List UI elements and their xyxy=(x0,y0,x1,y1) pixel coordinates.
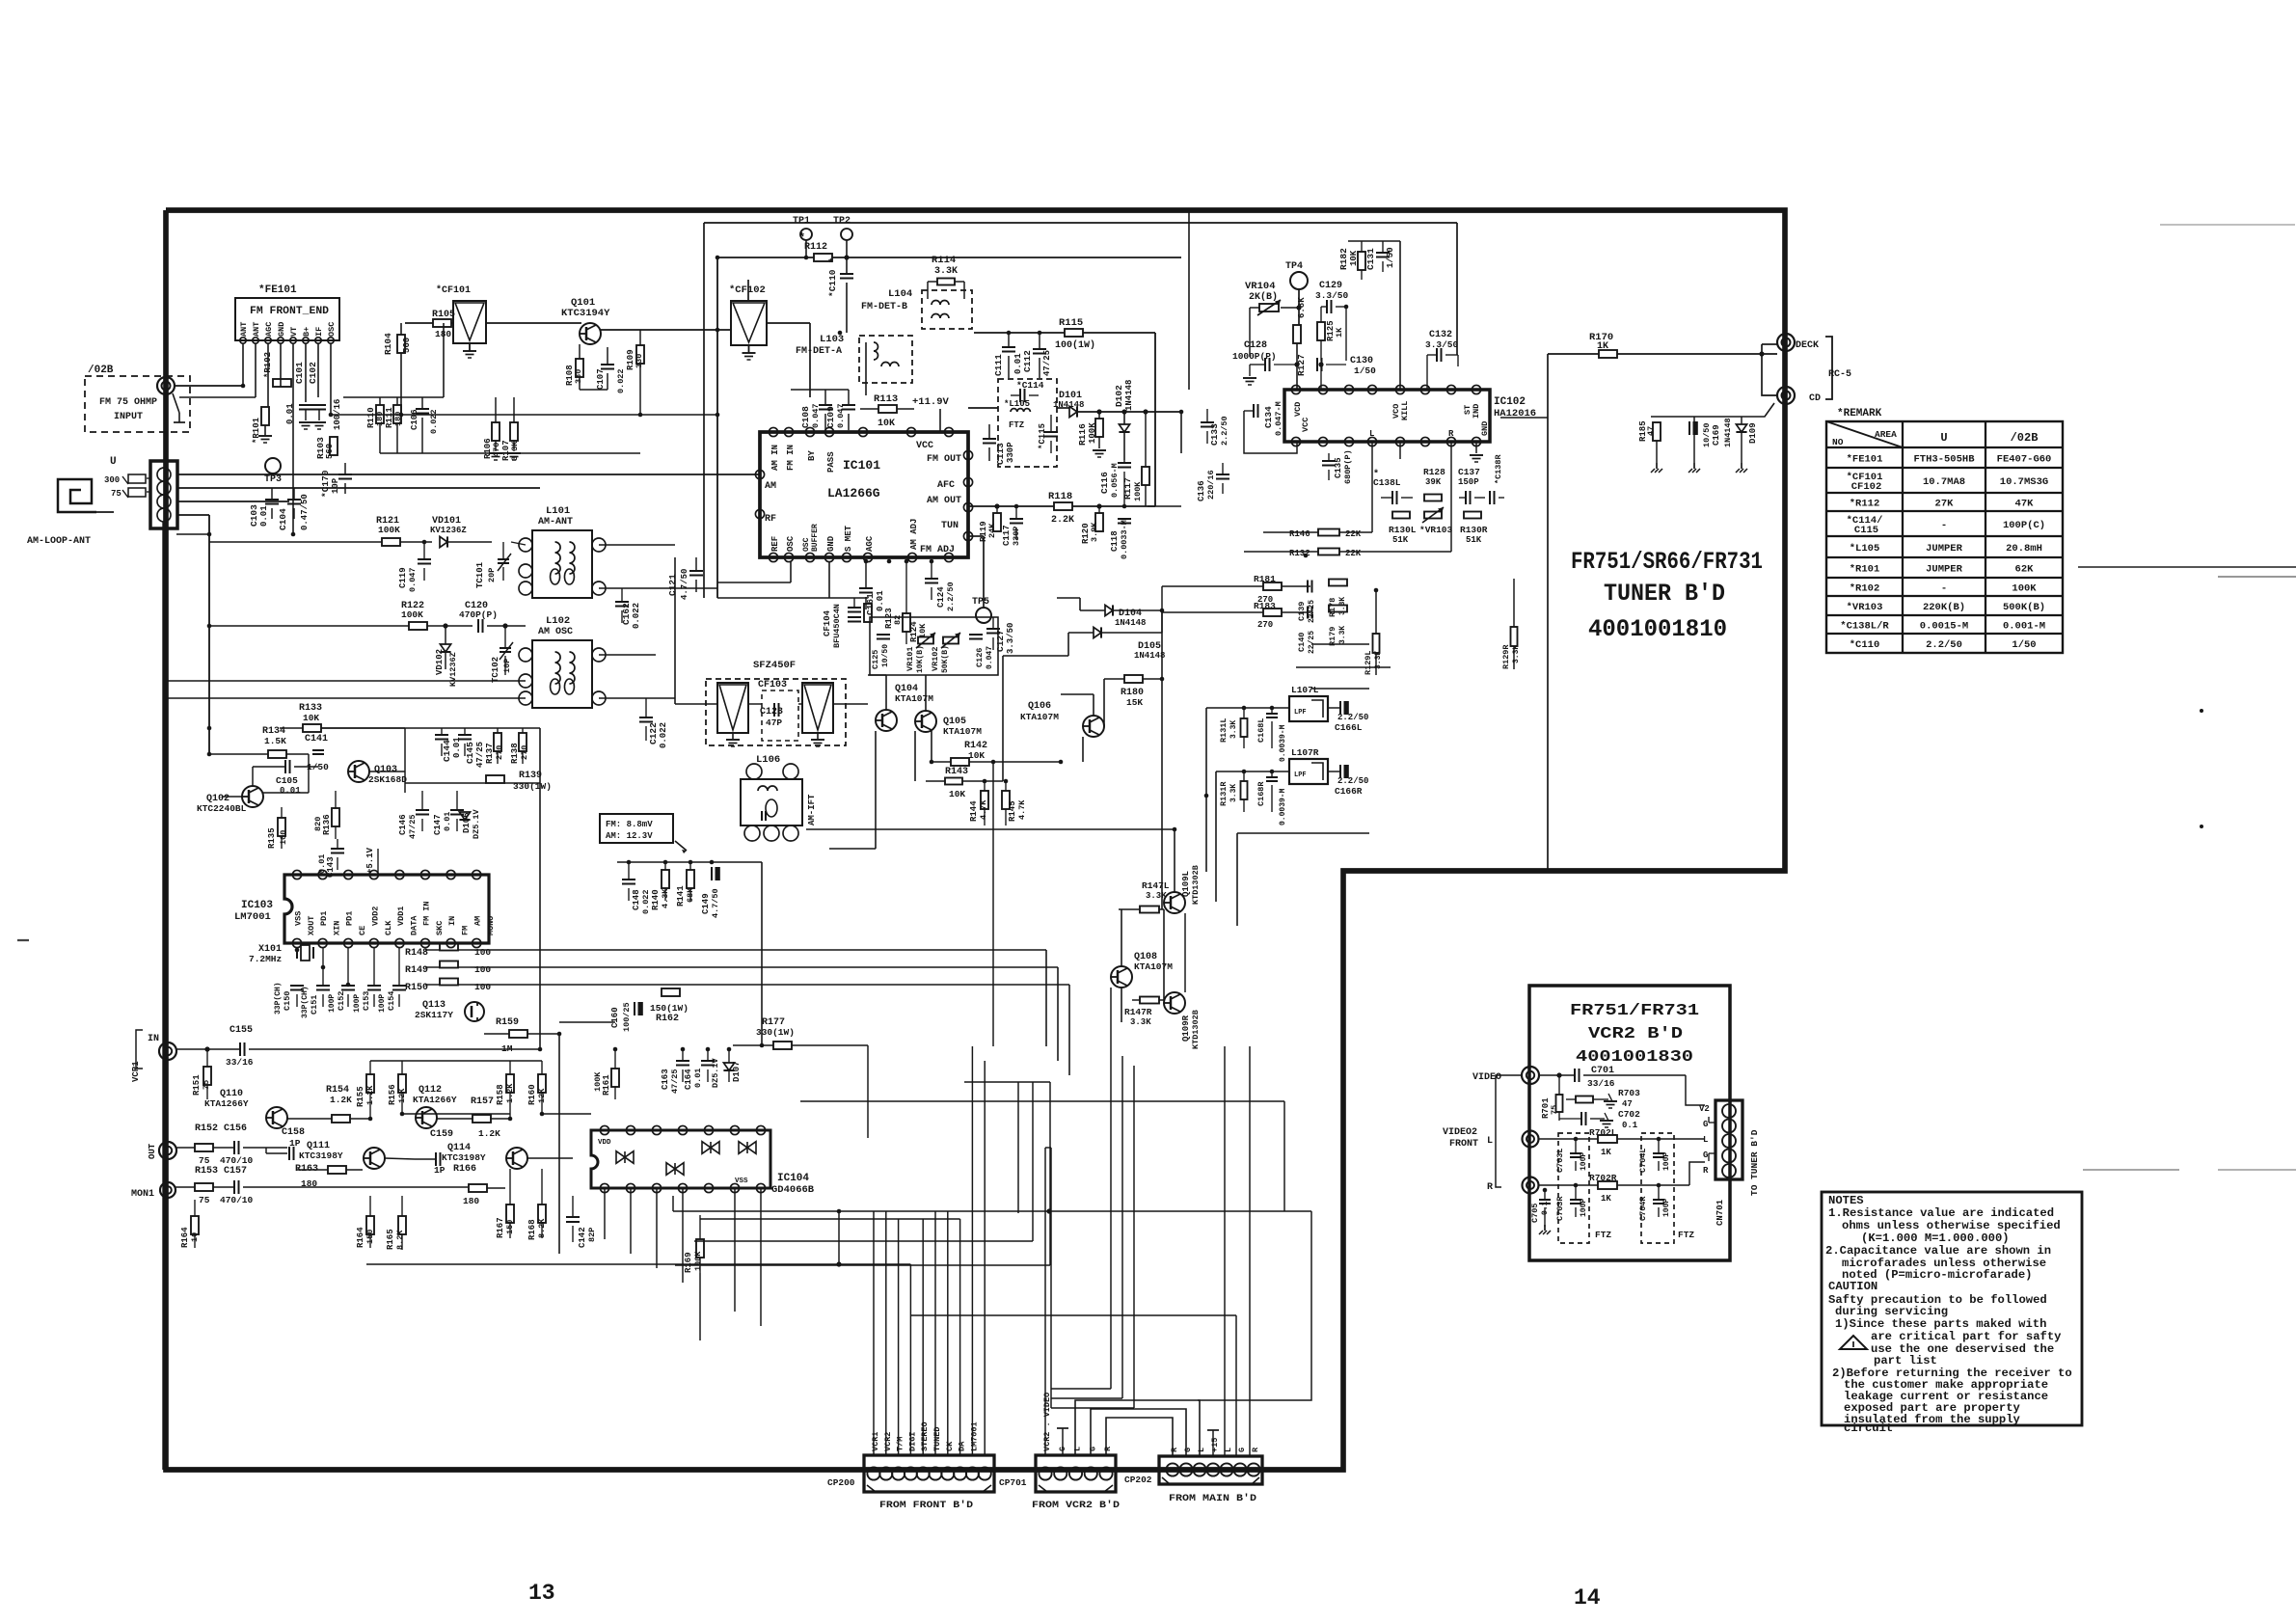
svg-text:AFC: AFC xyxy=(937,480,955,491)
svg-text:FR751/FR731: FR751/FR731 xyxy=(1570,1002,1699,1020)
svg-text:560: 560 xyxy=(402,338,412,353)
svg-text:during servicing: during servicing xyxy=(1835,1305,1948,1318)
svg-text:L: L xyxy=(1369,429,1374,439)
svg-text:L: L xyxy=(1073,1447,1083,1451)
svg-text:C155: C155 xyxy=(230,1025,253,1036)
board VCR2 B'D outline xyxy=(1529,986,1730,1260)
wire xyxy=(176,474,760,475)
resistor R160 xyxy=(538,1074,546,1093)
svg-text:KTC3198Y: KTC3198Y xyxy=(299,1150,343,1161)
svg-text:C107: C107 xyxy=(596,368,606,390)
svg-text:10.7MA8: 10.7MA8 xyxy=(1923,476,1965,488)
svg-text:R: R xyxy=(1487,1182,1493,1193)
resistor R131L xyxy=(1241,718,1248,737)
wire xyxy=(1201,667,1202,714)
wire xyxy=(656,1311,735,1313)
svg-text:R144: R144 xyxy=(969,800,979,822)
svg-text:VIDEO: VIDEO xyxy=(1472,1072,1501,1083)
module FTZ C114 L105 C115 xyxy=(998,379,1057,467)
svg-text:FROM FRONT B'D: FROM FRONT B'D xyxy=(879,1500,973,1511)
svg-text:C104: C104 xyxy=(278,508,288,530)
capacitor C143 xyxy=(331,848,344,850)
svg-text:C703L: C703L xyxy=(1555,1148,1565,1173)
svg-text:T/M: T/M xyxy=(896,1437,905,1451)
svg-text:R117: R117 xyxy=(1122,477,1133,500)
svg-text:R168: R168 xyxy=(527,1219,537,1240)
svg-text:C145: C145 xyxy=(465,742,475,764)
svg-text:FM-DET-A: FM-DET-A xyxy=(796,346,842,357)
svg-text:CF102: CF102 xyxy=(1851,481,1882,493)
svg-text:C144: C144 xyxy=(442,740,452,762)
wire xyxy=(370,1060,542,1062)
svg-text:FROM MAIN B'D: FROM MAIN B'D xyxy=(1169,1493,1256,1504)
wire xyxy=(1283,1101,1285,1211)
wire xyxy=(380,452,640,454)
enclosure wire xyxy=(870,617,998,675)
svg-text:AM OSC: AM OSC xyxy=(538,627,573,637)
svg-text:0.022: 0.022 xyxy=(641,889,651,914)
svg-text:C157: C157 xyxy=(224,1166,247,1177)
svg-text:*C138L/R: *C138L/R xyxy=(1840,621,1889,633)
capacitor C166L xyxy=(1339,701,1341,715)
svg-text:1N4148: 1N4148 xyxy=(1723,418,1733,447)
resistor R164b xyxy=(344,1203,346,1204)
wire xyxy=(868,1137,1013,1139)
svg-text:AM-LOOP-ANT: AM-LOOP-ANT xyxy=(27,536,91,547)
wire xyxy=(385,1158,415,1159)
svg-text:R147L: R147L xyxy=(1142,880,1170,891)
resistor R140 xyxy=(662,870,669,888)
svg-text:75: 75 xyxy=(202,1080,211,1090)
svg-text:10.7MS3G: 10.7MS3G xyxy=(2000,476,2048,488)
svg-text:NOTES: NOTES xyxy=(1828,1194,1864,1207)
wire xyxy=(674,1188,676,1326)
resistor R161 xyxy=(611,1069,619,1087)
svg-text:R143: R143 xyxy=(945,767,968,777)
svg-text:part list: part list xyxy=(1874,1354,1937,1367)
svg-text:S MET: S MET xyxy=(844,525,853,552)
wire xyxy=(838,1211,840,1264)
svg-text:D102: D102 xyxy=(1114,385,1124,407)
transistor Q105 xyxy=(915,711,936,732)
svg-text:C703R: C703R xyxy=(1555,1196,1565,1221)
resistor R110 xyxy=(376,405,384,423)
svg-text:VCR1: VCR1 xyxy=(871,1432,880,1451)
svg-text:C153: C153 xyxy=(362,991,371,1011)
resistor R158 xyxy=(506,1074,514,1093)
svg-text:C154: C154 xyxy=(387,991,396,1011)
svg-text:R150: R150 xyxy=(405,983,428,993)
svg-text:*C138R: *C138R xyxy=(1494,453,1503,484)
resistor R120 xyxy=(1095,513,1103,531)
svg-text:C166L: C166L xyxy=(1335,722,1363,733)
svg-text:R118: R118 xyxy=(1048,491,1072,502)
svg-text:1N4148: 1N4148 xyxy=(1115,618,1146,628)
svg-text:C141: C141 xyxy=(305,734,328,744)
wire xyxy=(1548,353,1599,355)
svg-text:0.0039-M: 0.0039-M xyxy=(1279,788,1287,826)
wire xyxy=(1012,1138,1013,1358)
resistor R139 xyxy=(486,775,504,783)
svg-text:100: 100 xyxy=(279,830,288,845)
connector CD xyxy=(1777,387,1795,404)
svg-text:0.022: 0.022 xyxy=(632,603,641,629)
svg-text:500K(B): 500K(B) xyxy=(2003,602,2045,613)
svg-text:C123: C123 xyxy=(760,707,783,717)
svg-text:ohms unless otherwise specifie: ohms unless otherwise specified xyxy=(1842,1219,2061,1232)
wire xyxy=(604,1188,606,1239)
svg-text:FM: 8.8mV: FM: 8.8mV xyxy=(606,820,653,829)
wire xyxy=(730,329,731,331)
warning triangle xyxy=(1840,1336,1867,1349)
svg-text:1P: 1P xyxy=(289,1138,301,1149)
svg-text:10/50: 10/50 xyxy=(881,644,890,667)
wire xyxy=(1180,257,1182,390)
svg-text:C122: C122 xyxy=(648,722,659,744)
wire xyxy=(964,1081,1050,1083)
svg-text:R131R: R131R xyxy=(1219,781,1229,806)
svg-text:10P: 10P xyxy=(502,659,512,673)
svg-text:TC102: TC102 xyxy=(491,657,500,683)
wire xyxy=(1296,666,1391,668)
svg-text:R155: R155 xyxy=(356,1086,365,1107)
svg-text:AM-IFT: AM-IFT xyxy=(807,794,817,826)
svg-text:3.3K: 3.3K xyxy=(1229,720,1238,739)
svg-text:VR102: VR102 xyxy=(931,646,940,671)
wire xyxy=(974,332,1065,334)
wire xyxy=(1343,985,1529,987)
wire xyxy=(1547,418,1549,871)
svg-text:R147R: R147R xyxy=(1124,1007,1152,1017)
capacitor C130 xyxy=(1316,358,1318,371)
svg-text:VDD1: VDD1 xyxy=(396,907,406,926)
svg-text:CD: CD xyxy=(1809,393,1821,404)
svg-text:C134: C134 xyxy=(1263,406,1274,428)
svg-text:AREA: AREA xyxy=(1875,429,1897,440)
resistor R168 xyxy=(538,1204,546,1223)
svg-text:0.047: 0.047 xyxy=(408,567,418,592)
svg-text:L107L: L107L xyxy=(1291,685,1319,695)
svg-text:FROM VCR2 B'D: FROM VCR2 B'D xyxy=(1032,1500,1120,1511)
net RC-5 xyxy=(1825,337,1832,399)
voltage note box xyxy=(600,814,673,843)
wire xyxy=(164,697,526,699)
svg-text:C138L: C138L xyxy=(1373,477,1401,488)
svg-text:*CF101: *CF101 xyxy=(436,284,471,296)
capacitor C105 xyxy=(284,760,286,773)
wire xyxy=(1146,1424,1148,1426)
svg-text:IC103: IC103 xyxy=(241,900,273,911)
svg-text:KTC3198Y: KTC3198Y xyxy=(442,1152,486,1163)
resistor R147R xyxy=(1140,997,1159,1004)
svg-text:47P: 47P xyxy=(766,717,782,728)
svg-text:FTZ: FTZ xyxy=(1595,1230,1611,1240)
wire xyxy=(590,1147,591,1149)
capacitor C168R xyxy=(1266,776,1278,778)
svg-text:VSS: VSS xyxy=(294,911,304,926)
wire xyxy=(1045,1046,1047,1254)
wire xyxy=(734,1188,736,1312)
wire xyxy=(1062,1428,1064,1455)
wire xyxy=(1121,1056,1123,1398)
wire xyxy=(682,1188,684,1283)
wire xyxy=(542,1113,591,1115)
svg-text:G: G xyxy=(1703,1120,1708,1129)
svg-text:circuit: circuit xyxy=(1844,1421,1893,1435)
svg-text:3.3K: 3.3K xyxy=(1338,626,1347,644)
capacitor C125 xyxy=(877,634,890,636)
svg-text:1N4148: 1N4148 xyxy=(1124,380,1134,411)
wire xyxy=(1181,389,1189,391)
svg-text:GND: GND xyxy=(277,322,286,337)
svg-text:100P: 100P xyxy=(1662,1199,1671,1217)
svg-text:JUMPER: JUMPER xyxy=(1926,543,1963,555)
wire xyxy=(1021,1148,1023,1366)
svg-text:TO TUNER B'D: TO TUNER B'D xyxy=(1749,1129,1760,1196)
svg-text:22K: 22K xyxy=(1345,529,1362,539)
svg-text:100: 100 xyxy=(474,982,491,992)
wire xyxy=(1068,985,1070,1075)
svg-text:KILL: KILL xyxy=(1400,401,1410,420)
wire xyxy=(539,488,541,521)
wire xyxy=(1148,505,1181,507)
svg-text:(K=1.000 M=1.000.000): (K=1.000 M=1.000.000) xyxy=(1861,1232,2010,1245)
svg-text:KTA107M: KTA107M xyxy=(1134,961,1173,972)
svg-text:2.2K: 2.2K xyxy=(1051,515,1074,526)
svg-text:39K: 39K xyxy=(1425,477,1442,487)
wire xyxy=(1237,832,1369,834)
svg-text:1.5K: 1.5K xyxy=(264,736,286,746)
svg-text:G: G xyxy=(1058,1447,1067,1451)
svg-text:7.2MHz: 7.2MHz xyxy=(249,954,282,964)
svg-text:L104: L104 xyxy=(888,288,912,300)
svg-text:VCD: VCD xyxy=(1293,402,1303,417)
potentiometer VR101 xyxy=(918,637,933,644)
svg-text:2SK117Y: 2SK117Y xyxy=(415,1010,453,1020)
svg-text:KTA107M: KTA107M xyxy=(895,693,933,704)
wire xyxy=(1050,1177,1052,1389)
resistor R124 xyxy=(903,613,910,632)
svg-text:33/16: 33/16 xyxy=(226,1057,254,1068)
svg-text:U: U xyxy=(1940,431,1947,445)
resistor R117 xyxy=(1142,467,1149,485)
svg-text:150(1W): 150(1W) xyxy=(650,1003,689,1014)
svg-text:STEREO: STEREO xyxy=(920,1421,930,1451)
svg-text:*L105: *L105 xyxy=(1850,543,1880,555)
wire xyxy=(1067,633,1069,656)
svg-text:+15: +15 xyxy=(1210,1438,1220,1452)
wire xyxy=(790,561,792,582)
wire xyxy=(673,1210,1311,1212)
potentiometer VR102 xyxy=(943,637,959,644)
svg-text:0.01: 0.01 xyxy=(280,786,301,796)
wire xyxy=(436,1107,438,1119)
wire xyxy=(242,343,244,386)
resistor R169 xyxy=(696,1239,704,1258)
svg-text:*: * xyxy=(827,258,834,270)
resistor R108 xyxy=(576,359,583,377)
notes box xyxy=(1822,1192,2082,1425)
wire xyxy=(1368,667,1370,689)
wire xyxy=(1188,210,1190,390)
IC IC104 GD4066B xyxy=(591,1130,770,1188)
resistor R155 xyxy=(366,1074,374,1093)
balun winding xyxy=(128,474,146,483)
svg-text:*R101: *R101 xyxy=(1850,564,1880,576)
svg-text:*: * xyxy=(798,231,805,245)
svg-text:R128: R128 xyxy=(1423,467,1445,477)
transistor Q109L xyxy=(1164,892,1185,913)
wire xyxy=(1060,694,1062,762)
svg-text:FTH3-505HB: FTH3-505HB xyxy=(1913,454,1975,466)
svg-text:R105: R105 xyxy=(432,310,455,320)
svg-text:-: - xyxy=(1941,520,1947,531)
svg-text:R129R: R129R xyxy=(1501,644,1511,669)
wire xyxy=(829,1044,868,1046)
svg-text:82P: 82P xyxy=(587,1228,597,1242)
wire xyxy=(724,760,726,779)
svg-text:AM: AM xyxy=(765,481,776,492)
capacitor C139 xyxy=(1307,581,1309,593)
svg-text:*C110: *C110 xyxy=(827,269,838,297)
svg-text:Q109R: Q109R xyxy=(1181,1015,1191,1042)
svg-text:C169: C169 xyxy=(1712,424,1721,446)
capacitor C124 xyxy=(925,578,938,580)
svg-text:IN: IN xyxy=(447,916,457,926)
svg-text:IC102: IC102 xyxy=(1494,396,1526,408)
svg-text:22K: 22K xyxy=(1345,549,1362,558)
svg-text:Q109L: Q109L xyxy=(1181,871,1191,897)
svg-text:R116: R116 xyxy=(1077,423,1088,446)
svg-text:*C110: *C110 xyxy=(1850,639,1880,651)
svg-text:R152: R152 xyxy=(195,1123,218,1134)
svg-text:VT: VT xyxy=(289,327,299,337)
svg-text:CK: CK xyxy=(945,1441,955,1451)
resistor R137 xyxy=(494,733,501,751)
svg-text:MON1: MON1 xyxy=(131,1189,154,1200)
wire xyxy=(1049,1082,1051,1265)
svg-text:4.7K: 4.7K xyxy=(979,799,988,820)
svg-text:C160: C160 xyxy=(610,1007,620,1028)
resistor R703 xyxy=(1576,1096,1593,1103)
svg-text:4.7K: 4.7K xyxy=(1017,799,1027,820)
svg-text:R146: R146 xyxy=(1289,529,1310,539)
svg-text:C158: C158 xyxy=(282,1127,305,1138)
svg-text:FE407-G60: FE407-G60 xyxy=(1997,454,2052,466)
svg-text:ANT: ANT xyxy=(252,322,261,337)
svg-text:R: R xyxy=(1448,429,1454,439)
svg-text:C106: C106 xyxy=(410,409,419,430)
svg-text:0.001-M: 0.001-M xyxy=(2003,621,2045,633)
svg-text:R182: R182 xyxy=(1338,248,1349,270)
svg-text:62K: 62K xyxy=(2015,564,2035,576)
resistor R179 xyxy=(1329,606,1347,612)
wire xyxy=(916,1211,918,1313)
wire xyxy=(760,1188,762,1326)
svg-text:2.2/50: 2.2/50 xyxy=(946,582,956,611)
wire xyxy=(1045,950,1047,1046)
svg-text:3.3K: 3.3K xyxy=(934,266,958,277)
svg-text:100P: 100P xyxy=(378,994,387,1013)
svg-text:R140: R140 xyxy=(651,889,661,910)
wire AM OUT xyxy=(968,505,1054,507)
wire xyxy=(617,861,762,863)
svg-text:LPF: LPF xyxy=(1294,771,1307,779)
svg-text:1M: 1M xyxy=(501,1043,513,1054)
svg-text:C148: C148 xyxy=(632,889,641,910)
svg-text:*VR103: *VR103 xyxy=(1419,525,1453,535)
svg-text:75: 75 xyxy=(1550,1105,1559,1115)
wire xyxy=(1040,1167,1042,1381)
wire xyxy=(697,1263,700,1265)
svg-text:C109: C109 xyxy=(825,406,836,428)
wire xyxy=(1456,223,1458,355)
svg-text:R165: R165 xyxy=(386,1229,395,1250)
svg-text:FM IN: FM IN xyxy=(786,445,796,471)
svg-text:R167: R167 xyxy=(496,1217,505,1238)
svg-text:R161: R161 xyxy=(602,1074,611,1096)
resistor R164d xyxy=(366,1216,374,1234)
wire xyxy=(1110,1046,1112,1389)
svg-text:FM: FM xyxy=(461,926,471,935)
svg-text:LM7001: LM7001 xyxy=(234,911,271,923)
svg-text:RF: RF xyxy=(765,514,776,525)
svg-text:C156: C156 xyxy=(224,1123,247,1134)
svg-text:75: 75 xyxy=(199,1195,210,1205)
wire xyxy=(164,680,526,682)
svg-text:0.022: 0.022 xyxy=(659,722,668,748)
capacitor C106 xyxy=(416,408,429,410)
svg-text:*REMARK: *REMARK xyxy=(1837,408,1882,420)
wire xyxy=(365,1239,367,1264)
svg-text:10P: 10P xyxy=(331,477,340,494)
svg-text:100K: 100K xyxy=(378,525,400,535)
wire xyxy=(878,1147,1022,1149)
wire xyxy=(599,654,656,656)
svg-text:BFU450C4N: BFU450C4N xyxy=(832,604,842,648)
module FTZ left xyxy=(1558,1133,1589,1243)
module FTZ right xyxy=(1641,1133,1674,1243)
svg-text:220K(B): 220K(B) xyxy=(1923,602,1965,613)
svg-text:2.Capacitance value are shown: 2.Capacitance value are shown in xyxy=(1825,1244,2051,1258)
svg-text:TP3: TP3 xyxy=(264,474,282,485)
svg-text:DATA: DATA xyxy=(409,915,419,935)
svg-text:JUMPER: JUMPER xyxy=(1926,564,1963,576)
svg-text:3.3K: 3.3K xyxy=(1146,891,1167,901)
svg-text:100K: 100K xyxy=(401,609,423,620)
svg-text:ANT: ANT xyxy=(239,322,249,337)
svg-text:L101: L101 xyxy=(546,505,570,517)
svg-text:SKC: SKC xyxy=(435,921,445,935)
svg-text:R: R xyxy=(1170,1447,1179,1452)
wire xyxy=(208,752,210,754)
svg-text:100P: 100P xyxy=(328,994,337,1013)
wire xyxy=(1174,829,1175,870)
svg-text:R115: R115 xyxy=(1059,317,1083,329)
svg-text:CN701: CN701 xyxy=(1715,1199,1725,1226)
analog switch S4 xyxy=(739,1142,756,1154)
svg-text:R166: R166 xyxy=(453,1164,476,1175)
wire xyxy=(699,1273,701,1340)
wire xyxy=(655,1188,657,1312)
resistor R701 xyxy=(1556,1095,1563,1112)
svg-text:R135: R135 xyxy=(267,827,277,849)
svg-text:R148: R148 xyxy=(405,948,428,959)
svg-text:AM: AM xyxy=(473,916,483,926)
capacitor C169 xyxy=(1688,421,1690,435)
svg-text:R130L: R130L xyxy=(1389,525,1417,535)
svg-text:R164: R164 xyxy=(180,1227,190,1248)
